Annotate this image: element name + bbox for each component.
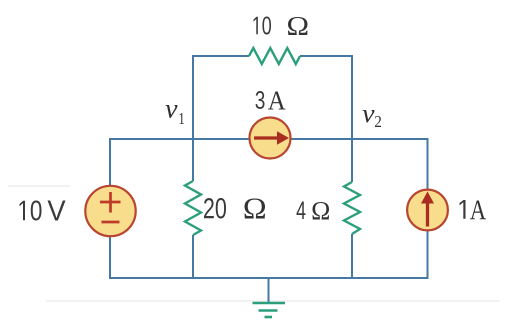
current source I 1A (circle with up arrow) [407, 190, 448, 231]
label: 10 V value digits [20, 201, 42, 221]
wire: right rail vertical [427, 138, 429, 279]
wire: node v1 rail lower segment [192, 235, 194, 279]
resistor R 10 ohm (horizontal zigzag) [249, 48, 300, 64]
node v1 label [166, 105, 178, 118]
label: 10 V unit [48, 201, 66, 221]
wire: node v1 rail upper segment [192, 139, 194, 181]
wire: node v2 rail lower segment [351, 234, 353, 279]
label: 3 A unit [268, 92, 286, 110]
wire: top loop left vertical (node v1 up to 10-ohm branch) [192, 55, 194, 139]
label: 20 ohm value digits [204, 198, 226, 219]
label: 10 ohm value digits [254, 17, 272, 35]
label: 4 ohm value digit [297, 202, 306, 220]
wire: top branch right segment [300, 55, 353, 57]
label: 1 A value digit [460, 200, 466, 219]
ground: top bar [253, 302, 286, 305]
node v1 subscript [180, 113, 185, 124]
faint page rule (bottom, across page) [46, 300, 500, 302]
label: 10 ohm unit [288, 17, 308, 35]
wire: top loop right vertical (down to node v2) [351, 55, 353, 139]
label: 1 A unit [470, 201, 486, 220]
label: 3 A value digit [256, 91, 265, 109]
ground: middle bar [259, 309, 278, 312]
wire: top branch left segment [192, 55, 249, 57]
faint page rule (left, above 10V label) [8, 185, 70, 187]
resistor R 20 ohm (vertical zigzag) [185, 181, 201, 235]
ground: stem [268, 278, 270, 303]
resistor R 4 ohm (vertical zigzag) [344, 182, 360, 234]
wire: bottom horizontal [109, 277, 429, 279]
current source I 3A (circle with right arrow) [250, 118, 291, 159]
wire: main middle horizontal (v1 - v2 row) [110, 138, 428, 140]
voltage source V 10V (circle with plus-minus) [85, 186, 135, 236]
label: 20 ohm unit [245, 199, 266, 219]
label: 4 ohm unit [313, 202, 330, 220]
wire: node v2 rail upper segment [351, 139, 353, 182]
ground: bottom bar [265, 316, 273, 319]
wire: left rail vertical [109, 138, 111, 279]
node v2 label [363, 110, 375, 123]
node v2 subscript [375, 116, 381, 127]
